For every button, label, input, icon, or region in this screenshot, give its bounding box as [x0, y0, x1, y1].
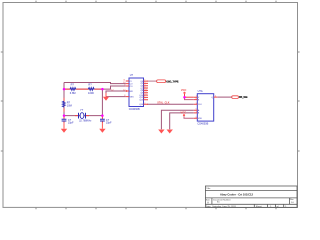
- svg-text:Saturday, June 25, 2011: Saturday, June 25, 2011: [212, 205, 236, 208]
- wire: U2 pin 5 to ground: [170, 113, 194, 129]
- svg-text:CD4050B: CD4050B: [197, 123, 208, 126]
- svg-text:15pF: 15pF: [68, 122, 74, 125]
- svg-text:Document Number: Document Number: [213, 198, 231, 201]
- svg-text:OSC_TYPE: OSC_TYPE: [167, 81, 180, 83]
- svg-text:VCC: VCC: [181, 111, 187, 115]
- svg-text:CO: CO: [130, 86, 133, 88]
- wire: VCC to U2 pin 1: [185, 96, 194, 98]
- wire: resistor chain run y=89.1: [64, 88, 102, 90]
- ground (under C2): [99, 123, 105, 132]
- capacitor C1: [62, 116, 74, 125]
- U2 left pin names: [198, 97, 203, 120]
- resistor R2: [82, 83, 101, 96]
- U1 left pin numbers: [123, 80, 126, 98]
- U1 left pin stubs: [126, 81, 129, 97]
- node OSC_TYPE flag: [157, 80, 180, 83]
- junction node B (102.4,89.1): [101, 88, 104, 91]
- crystal Y1: [75, 108, 92, 122]
- power VCC (U2 bottom): [181, 111, 187, 117]
- wire: U2 pin 4 to ground: [161, 110, 193, 129]
- wire: U2 output to flag RTC_1Hz: [217, 96, 232, 98]
- ground (under C1): [61, 123, 67, 132]
- svg-text:Sheet: Sheet: [256, 205, 262, 208]
- wire: VCC branch to U2 pin 2: [185, 97, 194, 99]
- svg-text:MR: MR: [130, 91, 134, 93]
- U2 left pin numbers: [196, 96, 198, 119]
- wire: VCC2 to U2 pin 8: [184, 116, 194, 118]
- U1 right pin names: [139, 81, 144, 106]
- ground (U2 pin 5 net): [167, 130, 173, 134]
- svg-text:R?: R?: [71, 83, 75, 87]
- svg-text:CLK: CLK: [198, 104, 203, 106]
- svg-text:B4_1Hz: B4_1Hz: [239, 96, 248, 99]
- U1 right pin numbers: [144, 80, 147, 105]
- resistor R1: [64, 83, 82, 96]
- U2 left pin stubs: [194, 97, 198, 118]
- U1 left pin names: [130, 81, 135, 99]
- svg-text:6.8M: 6.8M: [70, 91, 76, 95]
- svg-text:VSS: VSS: [130, 96, 135, 98]
- op-amp U1 (CD4060B counter) body: [129, 73, 144, 111]
- svg-text:32.768KHz: 32.768KHz: [79, 120, 92, 123]
- junction (102.4,115.6): [101, 114, 104, 117]
- svg-text:VCC: VCC: [181, 88, 187, 92]
- capacitor C2: [100, 116, 112, 125]
- svg-text:100K: 100K: [88, 91, 94, 95]
- U1 right pin stubs: [144, 81, 149, 104]
- svg-text:CD4060B: CD4060B: [129, 108, 140, 111]
- svg-text:R?: R?: [88, 83, 92, 87]
- wire: U1 pin 9 to flag OSC_TYPE: [147, 80, 157, 82]
- wire: feedback net from node A to U1 pin 11: [64, 83, 126, 84]
- wire: U1 pin 8 to ground: [106, 96, 126, 98]
- wire: U1 pin 12 to ground: [106, 91, 126, 93]
- svg-text:15pF: 15pF: [106, 122, 112, 125]
- svg-text:Rev: Rev: [290, 199, 294, 201]
- power VCC (U2 top): [181, 88, 187, 97]
- svg-text:U?A: U?A: [198, 89, 203, 93]
- junction VCC net (184.5,97.2): [183, 96, 186, 99]
- wire: net XTAL_CLK from U1 to U2: [147, 103, 194, 105]
- svg-text:XTAL_CLK: XTAL_CLK: [157, 102, 170, 105]
- ground (U1 MR pin): [103, 93, 109, 101]
- junction node A (64,89.1): [63, 88, 66, 91]
- U2 right pin stub: [214, 96, 218, 98]
- wire: chain to U1 pin 10 with jog: [102, 86, 125, 89]
- wire: left vertical rail x=64 (node A down through R3 to crystal row): [63, 83, 65, 116]
- resistor R3 (vertical): [62, 98, 71, 112]
- node RTC_1Hz flag: [232, 96, 249, 99]
- svg-text:Abey Cooler - Crt 101/C12: Abey Cooler - Crt 101/C12: [220, 192, 254, 196]
- wire: right vertical x=102.4 down to crystal row: [101, 89, 103, 116]
- junction U1 pin12: [126, 90, 128, 92]
- op-amp U2 (CD4050B buffer) body: [197, 89, 213, 126]
- svg-text:Date:: Date:: [206, 205, 212, 208]
- svg-text:VDD: VDD: [198, 118, 203, 120]
- junction (64,115.6): [63, 114, 66, 117]
- wire: crystal row y=115.6: [64, 115, 102, 117]
- ground (U2 pin 4 net): [158, 130, 164, 134]
- svg-text:Y?: Y?: [80, 108, 84, 112]
- svg-text:10M: 10M: [67, 104, 72, 108]
- svg-text:U?: U?: [130, 73, 134, 77]
